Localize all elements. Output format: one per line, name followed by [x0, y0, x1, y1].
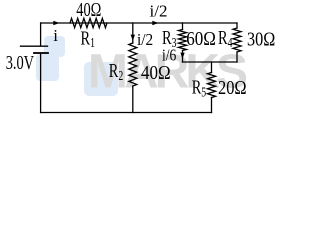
arrow i/2 on top wire [152, 21, 158, 25]
arrow i/2 down on R2 branch [131, 35, 135, 41]
wire mid [183, 61, 238, 63]
wire R5 lower [211, 98, 213, 113]
resistor R4 [233, 28, 241, 52]
wire R4 lower [236, 52, 238, 62]
battery long plate [21, 45, 48, 47]
wire R4 upper [236, 23, 238, 28]
arrow i on top wire [53, 21, 59, 25]
watermark logo lower square [36, 54, 59, 81]
wire R2 branch lower [132, 86, 134, 113]
wire R2 branch upper [132, 23, 134, 43]
battery short plate [34, 52, 48, 54]
svg-text:3.0V: 3.0V [6, 51, 35, 74]
wire bottom [41, 112, 212, 114]
svg-text:40Ω: 40Ω [141, 62, 171, 85]
svg-text:20Ω: 20Ω [218, 77, 247, 99]
wire R3 branch lower [182, 51, 184, 63]
wire left lower [40, 54, 42, 113]
resistor R1 [70, 18, 107, 27]
wire left upper [40, 23, 42, 46]
resistor R5 [208, 73, 216, 98]
resistor R3 [179, 30, 187, 51]
wire R5 upper [211, 62, 213, 73]
svg-text:i/2: i/2 [137, 31, 153, 49]
svg-text:60Ω: 60Ω [186, 28, 216, 51]
resistor R2 [129, 43, 137, 86]
wire R3 branch upper [182, 23, 184, 30]
svg-text:i/2: i/2 [150, 2, 168, 21]
watermark logo right square [84, 62, 118, 96]
svg-text:30Ω: 30Ω [247, 28, 275, 50]
svg-text:40Ω: 40Ω [76, 0, 101, 20]
svg-text:i/6: i/6 [162, 46, 177, 65]
wire top [41, 22, 237, 24]
svg-text:i: i [53, 26, 58, 45]
arrow i/6 down on R3 branch [180, 53, 184, 59]
watermark logo upper square [44, 36, 65, 57]
